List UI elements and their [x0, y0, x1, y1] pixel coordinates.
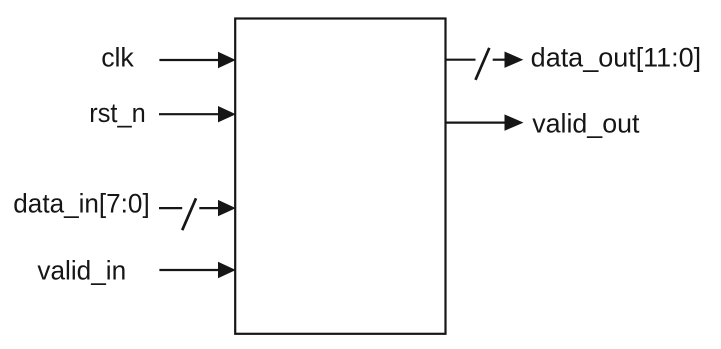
- arrowhead valid_out: [505, 114, 524, 130]
- wire data_in segment 2: [199, 207, 220, 209]
- wire valid_out: [446, 121, 506, 123]
- svg-text:data_out[11:0]: data_out[11:0]: [531, 43, 702, 73]
- svg-text:data_in[7:0]: data_in[7:0]: [13, 188, 149, 218]
- arrowhead rst_n: [218, 106, 236, 122]
- wire rst_n: [159, 113, 220, 115]
- svg-text:valid_in: valid_in: [37, 255, 126, 285]
- svg-text:valid_out: valid_out: [532, 109, 640, 139]
- bus-width slash data_out: [476, 48, 490, 80]
- wire data_out segment 1: [446, 59, 476, 61]
- arrowhead data_in: [218, 200, 236, 216]
- module block U1: [235, 19, 445, 334]
- wire data_out segment 2: [493, 59, 505, 61]
- arrowhead data_out: [505, 52, 524, 68]
- arrowhead valid_in: [218, 262, 236, 278]
- wire data_in segment 1: [159, 207, 182, 209]
- svg-text:clk: clk: [101, 43, 134, 73]
- wire valid_in: [159, 269, 220, 271]
- arrowhead clk: [218, 52, 236, 68]
- wire clk: [159, 59, 220, 61]
- bus-width slash data_in: [182, 198, 196, 230]
- svg-text:rst_n: rst_n: [89, 98, 145, 128]
